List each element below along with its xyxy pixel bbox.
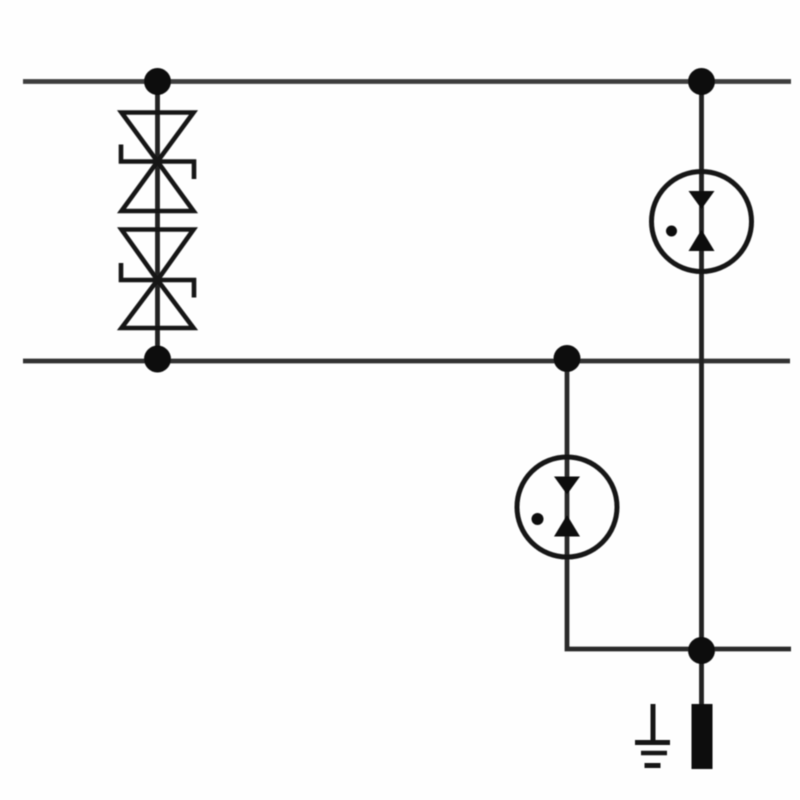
earth electrode terminal (filled bar) <box>692 704 713 769</box>
spark-gap arrester F1: lower arrow <box>689 230 715 252</box>
bidirectional suppressor diode D1: zener bar <box>121 145 194 180</box>
wire: left TVS branch vertical <box>155 82 160 362</box>
ground symbol: stem <box>651 704 656 740</box>
bidirectional suppressor diode D1: upper triangle <box>122 113 194 162</box>
ground symbol: bar 3 <box>645 763 661 768</box>
junction dot: top bus / right branch <box>688 68 715 95</box>
spark-gap arrester F1: upper arrow <box>689 191 715 209</box>
junction dot: middle bus / TVS branch <box>144 346 171 373</box>
ground symbol: bar 2 <box>641 751 667 756</box>
junction dot: middle bus / middle branch <box>554 345 581 372</box>
spark-gap arrester F1: circle body <box>652 172 752 272</box>
bidirectional suppressor diode D2: zener bar <box>121 263 194 298</box>
bidirectional suppressor diode D2: upper triangle <box>122 230 194 281</box>
wire: top bus line L1 <box>23 79 791 84</box>
junction dot: top bus / TVS branch <box>144 68 171 95</box>
wire: middle arrester branch vertical + bottom run <box>567 361 791 649</box>
junction dot: bottom run / right branch <box>688 637 715 664</box>
bidirectional suppressor diode D1: lower triangle <box>122 162 194 212</box>
ground symbol: bar 1 <box>635 740 670 745</box>
spark-gap arrester F2: circle body <box>517 457 617 557</box>
spark-gap arrester F1: trigger dot <box>666 226 677 237</box>
spark-gap arrester F2: upper arrow <box>554 477 580 495</box>
bidirectional suppressor diode D2: lower triangle <box>122 280 194 328</box>
spark-gap arrester F2: trigger dot <box>532 513 544 525</box>
spark-gap arrester F2: lower arrow <box>554 515 580 537</box>
wire: right arrester branch vertical <box>699 82 704 705</box>
wire: middle bus line L2 <box>23 359 790 364</box>
